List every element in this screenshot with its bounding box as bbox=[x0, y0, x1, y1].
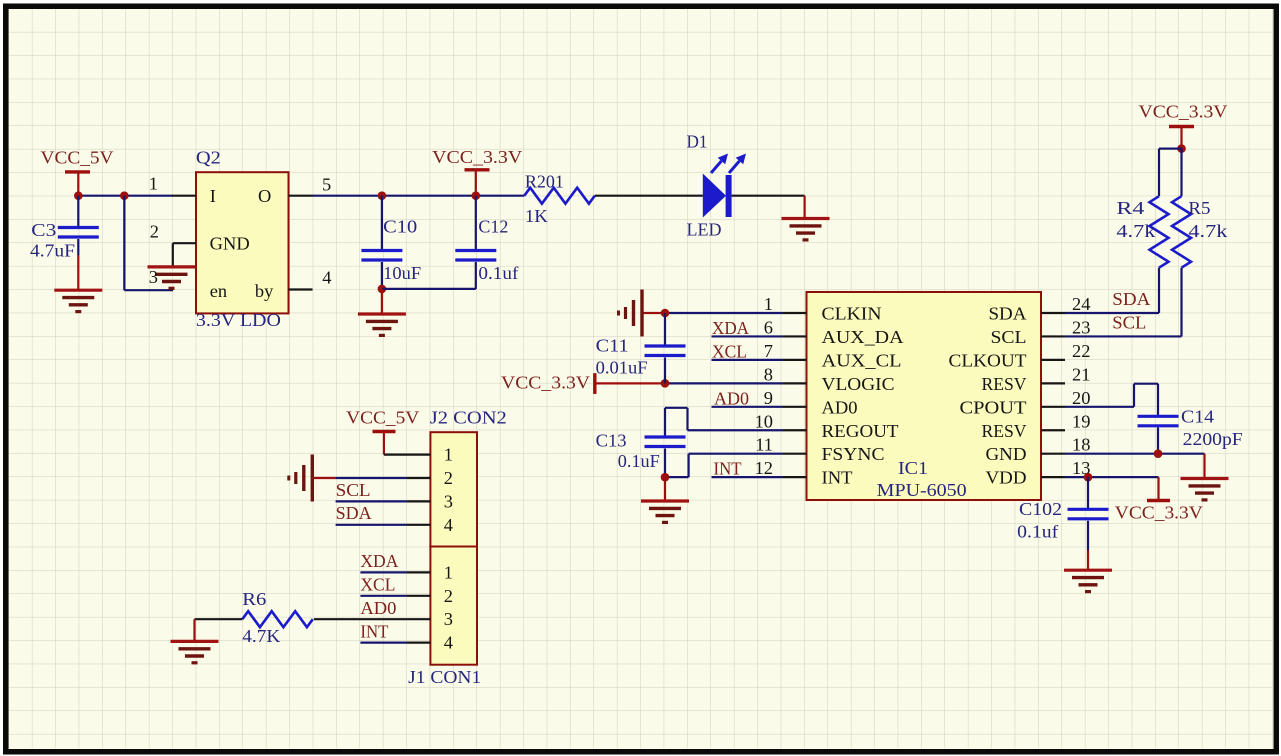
svg-text:VCC_3.3V: VCC_3.3V bbox=[501, 372, 591, 392]
svg-text:10uF: 10uF bbox=[383, 263, 421, 283]
regulator Q2 body bbox=[196, 172, 289, 313]
svg-text:2200pF: 2200pF bbox=[1183, 429, 1243, 449]
svg-text:MPU-6050: MPU-6050 bbox=[877, 480, 967, 500]
node junction at C12 bbox=[472, 191, 481, 200]
svg-text:10: 10 bbox=[755, 411, 773, 431]
ground below C13 bbox=[664, 477, 666, 501]
svg-text:SCL: SCL bbox=[336, 480, 371, 500]
svg-text:3.3V LDO: 3.3V LDO bbox=[196, 310, 281, 330]
wire VCC to R4 top bbox=[1159, 148, 1182, 150]
ground right of LED bbox=[782, 219, 830, 240]
svg-text:9: 9 bbox=[764, 388, 773, 408]
svg-text:R4: R4 bbox=[1116, 198, 1144, 218]
capacitor C3 bbox=[77, 196, 79, 227]
svg-text:24: 24 bbox=[1072, 294, 1090, 314]
capacitor C102 bbox=[1087, 477, 1089, 509]
node junction C13 bottom bbox=[661, 473, 670, 482]
svg-text:by: by bbox=[255, 281, 274, 301]
svg-text:C14: C14 bbox=[1181, 407, 1214, 427]
svg-text:IC1: IC1 bbox=[898, 458, 928, 478]
ground below C102 bbox=[1064, 570, 1112, 591]
svg-text:INT: INT bbox=[360, 622, 388, 642]
svg-text:1: 1 bbox=[444, 562, 453, 582]
svg-text:XDA: XDA bbox=[360, 551, 399, 571]
svg-text:CPOUT: CPOUT bbox=[960, 397, 1027, 417]
wire GND net (pin 18) bbox=[1065, 453, 1205, 455]
wire VLOGIC net bbox=[665, 382, 783, 384]
svg-text:2: 2 bbox=[150, 222, 159, 242]
capacitor C13 bbox=[645, 437, 686, 447]
svg-text:VCC_5V: VCC_5V bbox=[346, 408, 420, 428]
svg-text:VCC_5V: VCC_5V bbox=[41, 148, 115, 168]
connector J1 body bbox=[430, 547, 477, 665]
ground below C3 bbox=[54, 290, 102, 311]
svg-text:3: 3 bbox=[149, 267, 158, 287]
IC1 left pin 1 (CLKIN) bbox=[783, 312, 807, 314]
wire VCC_5V rail to Q2 pin 1 bbox=[78, 195, 173, 197]
IC1 right pin 24 (SDA) bbox=[1041, 312, 1065, 314]
node junction VCC_5V / en loop bbox=[120, 191, 129, 200]
capacitor C10 bbox=[381, 196, 383, 250]
svg-text:VCC_3.3V: VCC_3.3V bbox=[1139, 102, 1229, 122]
svg-text:C10: C10 bbox=[383, 217, 417, 237]
wire CLKIN net bbox=[665, 312, 783, 314]
svg-text:J2 CON2: J2 CON2 bbox=[430, 408, 507, 428]
wire VDD net (pin 13) bbox=[1065, 476, 1159, 478]
IC1 left pin 9 (AD0) bbox=[783, 406, 807, 408]
svg-text:RESV: RESV bbox=[982, 421, 1028, 441]
svg-text:LED: LED bbox=[687, 220, 722, 240]
Q2 pin 1 (I) bbox=[172, 195, 196, 197]
svg-text:en: en bbox=[210, 281, 227, 301]
net label XDA / wire pin 6 bbox=[712, 335, 783, 337]
node junction VDD / C102 bbox=[1084, 473, 1093, 482]
IC1 left pin 11 (FSYNC) bbox=[783, 453, 807, 455]
node junction VLOGIC / C11 bbox=[661, 379, 670, 388]
ground left of R6 bbox=[171, 641, 219, 662]
svg-text:O: O bbox=[258, 186, 271, 206]
ground right of C14 bbox=[1203, 454, 1205, 479]
node junction C10 bottom bbox=[378, 285, 387, 294]
net label INT / wire pin 12 bbox=[712, 476, 783, 478]
svg-text:XCL: XCL bbox=[712, 341, 747, 361]
node junction at C10 bbox=[378, 191, 387, 200]
svg-text:AD0: AD0 bbox=[822, 397, 858, 417]
ground below C10 bbox=[381, 289, 383, 314]
svg-text:19: 19 bbox=[1072, 411, 1090, 431]
Q2 pin 2 (GND) bbox=[173, 242, 196, 244]
svg-text:20: 20 bbox=[1072, 388, 1090, 408]
svg-text:SCL: SCL bbox=[991, 327, 1027, 347]
J2 pin 2 wire bbox=[336, 477, 407, 479]
IC1 right pin 21 (RESV) bbox=[1041, 382, 1065, 384]
svg-text:6: 6 bbox=[764, 317, 773, 337]
svg-text:4.7k: 4.7k bbox=[1116, 221, 1156, 241]
sideways ground at J2 pin 2 bbox=[289, 455, 313, 502]
connector J2 body bbox=[430, 432, 477, 546]
IC1 left pin 7 (AUX_CL) bbox=[783, 359, 807, 361]
sideways ground at CLKIN bbox=[642, 312, 665, 314]
svg-text:3: 3 bbox=[444, 609, 453, 629]
svg-text:4: 4 bbox=[444, 515, 453, 535]
svg-text:C102: C102 bbox=[1019, 499, 1062, 519]
svg-text:SCL: SCL bbox=[1112, 313, 1146, 333]
LED D1 bbox=[703, 174, 726, 218]
wire C10-C12 bottom link bbox=[382, 288, 476, 290]
svg-text:8: 8 bbox=[764, 364, 773, 384]
wire R4 bottom to SDA bbox=[1158, 268, 1160, 313]
svg-text:18: 18 bbox=[1072, 435, 1090, 455]
wire R201 to LED bbox=[595, 195, 703, 197]
svg-text:1: 1 bbox=[149, 174, 158, 194]
capacitor C12 bbox=[475, 196, 477, 250]
J2 pin 1 bbox=[384, 454, 431, 456]
wire en loop (junction down and right to Q2 pin 3) bbox=[123, 196, 125, 291]
svg-text:RESV: RESV bbox=[982, 374, 1028, 394]
svg-text:0.1uf: 0.1uf bbox=[1017, 522, 1059, 542]
svg-text:7: 7 bbox=[764, 341, 773, 361]
svg-text:CLKOUT: CLKOUT bbox=[949, 350, 1027, 370]
svg-text:1: 1 bbox=[444, 445, 453, 465]
wire R5 top lead bbox=[1180, 149, 1182, 197]
svg-text:5: 5 bbox=[322, 175, 331, 195]
svg-text:R6: R6 bbox=[242, 589, 266, 609]
svg-text:SDA: SDA bbox=[1112, 289, 1151, 309]
IC1 right pin 19 (RESV) bbox=[1041, 429, 1065, 431]
capacitor C11 bbox=[664, 313, 666, 346]
resistor R6 bbox=[242, 611, 312, 627]
svg-text:AUX_DA: AUX_DA bbox=[822, 327, 905, 347]
wire REGOUT to C13 top (staircase) bbox=[664, 408, 666, 437]
IC1 right pin 18 (GND) bbox=[1041, 453, 1065, 455]
svg-text:GND: GND bbox=[210, 234, 250, 254]
svg-text:22: 22 bbox=[1072, 341, 1090, 361]
IC1 left pin 6 (AUX_DA) bbox=[783, 335, 807, 337]
svg-text:0.1uf: 0.1uf bbox=[478, 263, 519, 283]
svg-text:4.7K: 4.7K bbox=[242, 626, 281, 646]
net label XCL / wire pin 7 bbox=[712, 359, 783, 361]
svg-text:CLKIN: CLKIN bbox=[822, 304, 882, 324]
wire SCL net / net label SCL bbox=[1065, 335, 1182, 337]
svg-text:XDA: XDA bbox=[712, 318, 750, 338]
svg-text:REGOUT: REGOUT bbox=[822, 421, 899, 441]
node junction C14 bottom / GND bbox=[1154, 449, 1163, 458]
ground at Q2 pin 2 bbox=[148, 267, 196, 288]
svg-text:R5: R5 bbox=[1188, 198, 1210, 218]
svg-text:C11: C11 bbox=[596, 336, 629, 356]
svg-text:C13: C13 bbox=[596, 431, 627, 451]
node junction CLKIN bbox=[661, 309, 670, 318]
svg-text:4: 4 bbox=[444, 633, 453, 653]
node junction VCC_5V / C3 bbox=[74, 191, 83, 200]
svg-text:0.01uF: 0.01uF bbox=[596, 358, 648, 378]
svg-text:1: 1 bbox=[764, 294, 773, 314]
svg-text:GND: GND bbox=[986, 444, 1027, 464]
wire Q2 output rail bbox=[313, 195, 525, 197]
svg-text:23: 23 bbox=[1072, 317, 1090, 337]
svg-text:2: 2 bbox=[444, 586, 453, 606]
svg-text:INT: INT bbox=[714, 458, 742, 478]
power port VCC_3.3V at VDD (downward) bbox=[1157, 477, 1159, 500]
svg-text:SDA: SDA bbox=[989, 304, 1028, 324]
svg-text:I: I bbox=[210, 186, 216, 206]
svg-text:4.7k: 4.7k bbox=[1188, 221, 1228, 241]
svg-text:C12: C12 bbox=[478, 217, 508, 237]
IC1 left pin 12 (INT) bbox=[783, 476, 807, 478]
wire R6 to ground bbox=[195, 618, 243, 620]
svg-text:C3: C3 bbox=[31, 220, 56, 240]
svg-text:3: 3 bbox=[444, 491, 453, 511]
svg-text:4.7uF: 4.7uF bbox=[30, 241, 75, 261]
svg-text:21: 21 bbox=[1072, 364, 1090, 384]
svg-text:XCL: XCL bbox=[360, 575, 395, 595]
net label AD0 / wire pin 9 bbox=[712, 406, 783, 408]
svg-text:1K: 1K bbox=[525, 206, 549, 226]
svg-text:J1 CON1: J1 CON1 bbox=[408, 667, 481, 687]
svg-text:VDD: VDD bbox=[986, 468, 1027, 488]
node junction R4/R5 top bbox=[1177, 144, 1186, 153]
svg-text:VLOGIC: VLOGIC bbox=[822, 374, 895, 394]
wire R5 bottom to SCL bbox=[1180, 268, 1182, 337]
wire LED cathode to ground bbox=[732, 195, 805, 197]
resistor R5 bbox=[1172, 196, 1191, 268]
IC1 right pin 22 (CLKOUT) bbox=[1041, 359, 1065, 361]
svg-text:0.1uF: 0.1uF bbox=[618, 451, 660, 471]
capacitor C14 bbox=[1138, 416, 1179, 426]
IC1 right pin 20 (CPOUT) bbox=[1041, 406, 1065, 408]
svg-text:AUX_CL: AUX_CL bbox=[822, 350, 902, 370]
op IC1 MPU-6050 body bbox=[807, 292, 1042, 500]
svg-text:AD0: AD0 bbox=[714, 388, 749, 408]
svg-text:VCC_3.3V: VCC_3.3V bbox=[1115, 503, 1204, 523]
Q2 pin 5 (O) bbox=[289, 195, 313, 197]
svg-text:VCC_3.3V: VCC_3.3V bbox=[432, 147, 523, 167]
svg-text:INT: INT bbox=[822, 468, 853, 488]
svg-text:R201: R201 bbox=[525, 171, 564, 191]
svg-text:4: 4 bbox=[322, 268, 331, 288]
IC1 right pin 13 (VDD) bbox=[1041, 476, 1065, 478]
wire SDA net / net label SDA bbox=[1065, 312, 1159, 314]
svg-text:2: 2 bbox=[444, 468, 453, 488]
Q2 pin 4 (by) bbox=[289, 288, 313, 290]
IC1 left pin 10 (REGOUT) bbox=[783, 429, 807, 431]
svg-text:SDA: SDA bbox=[336, 503, 373, 523]
IC1 left pin 8 (VLOGIC) bbox=[783, 382, 807, 384]
wire CPOUT to C14 bbox=[1065, 406, 1134, 408]
svg-text:Q2: Q2 bbox=[196, 148, 221, 168]
svg-text:12: 12 bbox=[755, 458, 773, 478]
svg-text:D1: D1 bbox=[687, 132, 708, 152]
svg-text:AD0: AD0 bbox=[360, 598, 396, 618]
IC1 right pin 23 (SCL) bbox=[1041, 335, 1065, 337]
svg-text:11: 11 bbox=[755, 435, 773, 455]
resistor R4 bbox=[1150, 196, 1169, 268]
resistor R201 bbox=[524, 188, 595, 204]
svg-text:FSYNC: FSYNC bbox=[822, 444, 885, 464]
wire FSYNC down to C13 bottom junction bbox=[689, 453, 783, 455]
